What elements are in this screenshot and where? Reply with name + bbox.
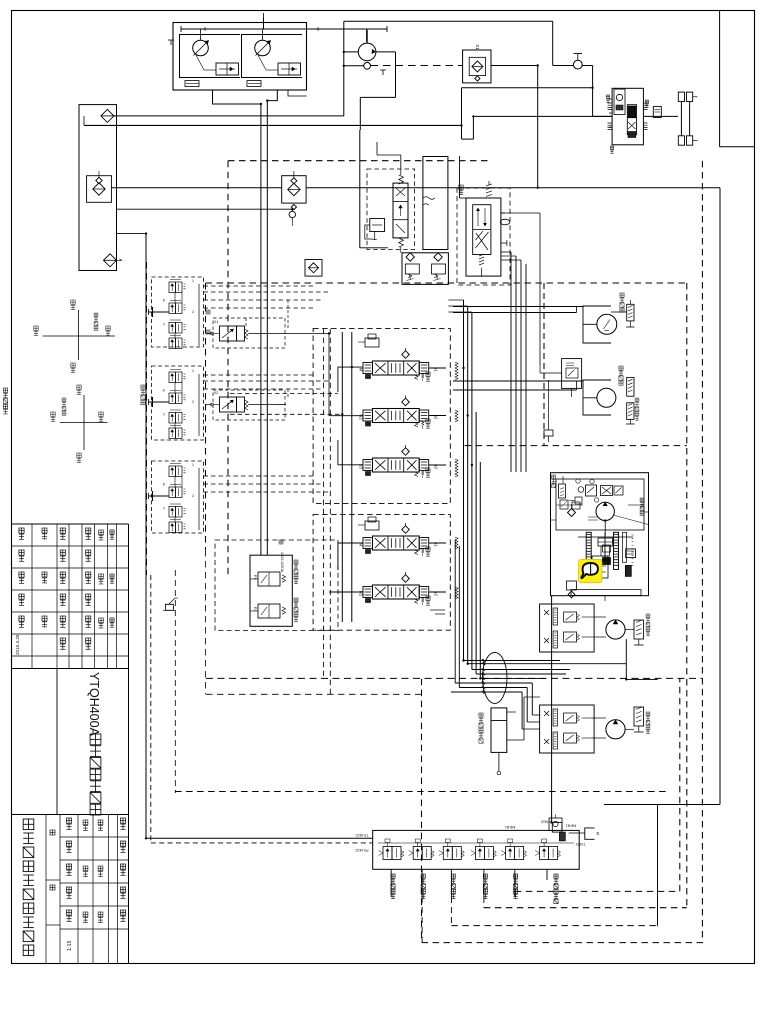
- section b1 label: [426, 547, 430, 556]
- solenoid X2 wires: [206, 391, 276, 405]
- svg-text:E: E: [596, 831, 599, 836]
- direction cross lower: [60, 395, 108, 450]
- svg-text:N2: N2: [359, 414, 364, 420]
- wire servo drop: [460, 156, 467, 198]
- company name column: [23, 819, 34, 956]
- wire aux pump dashed drain: [371, 65, 459, 67]
- winch bottom box: [571, 590, 641, 602]
- wire pump1 outlet drop: [213, 90, 261, 104]
- pilot web g3: [204, 476, 331, 492]
- highlight yellow box: [579, 559, 603, 583]
- valve section b3 a3: [359, 445, 439, 478]
- servo arrows top: [476, 208, 486, 226]
- svg-text:2: 2: [192, 310, 194, 314]
- pilot block dashed box: [215, 540, 338, 630]
- svg-text:4402-0291b: 4402-0291b: [280, 552, 284, 572]
- motor M1 frame: [583, 306, 611, 343]
- wire S1 drop x537: [537, 66, 539, 188]
- pump P1 swash link: [196, 55, 216, 70]
- brake valve side springs: [608, 103, 648, 130]
- wire top right notch: [720, 11, 755, 147]
- junction box small: [544, 430, 553, 436]
- wire manifold right riser: [551, 596, 553, 823]
- bank A dashed box: [313, 329, 450, 504]
- valve section N2b b2: [359, 572, 439, 605]
- winch right dark block: [625, 565, 631, 576]
- svg-text:T0.M22: T0.M22: [356, 833, 369, 837]
- motor M2 frame: [583, 380, 611, 415]
- wire S1 left: [458, 65, 463, 67]
- svg-text:2: 2: [192, 400, 194, 404]
- motor M1 label: [620, 293, 624, 312]
- pilot block box: [250, 555, 292, 626]
- central valve spring top: [399, 168, 404, 184]
- wire S1 right: [491, 65, 538, 67]
- dashed enclosure A: [175, 283, 687, 908]
- hand pump circle: [573, 54, 582, 70]
- highlight balloon glyph: [581, 563, 598, 578]
- wire right bus 4: [475, 412, 477, 674]
- filter S1 inner: [469, 57, 485, 81]
- filter F1 diamond: [101, 109, 114, 122]
- accumulator small box: [653, 107, 661, 118]
- svg-text:2010.3.25: 2010.3.25: [15, 634, 20, 655]
- check valve block: [305, 260, 322, 277]
- winch drum dark hubs: [603, 532, 611, 564]
- aux pump small circle: [364, 62, 371, 69]
- svg-text:P2: P2: [253, 607, 257, 611]
- wire return right drop: [719, 188, 721, 805]
- svg-text:M8-B1: M8-B1: [566, 824, 577, 828]
- pilot web g2: [204, 375, 331, 397]
- manifold dashed drops: [422, 891, 515, 942]
- dashed enclosure C: [146, 262, 148, 575]
- svg-text:1:15: 1:15: [67, 941, 73, 952]
- wire return y188 left: [111, 187, 281, 189]
- bundle lines through ellipse: [451, 659, 626, 694]
- manifold top fitting: [549, 815, 562, 831]
- wire T0 bottom: [146, 837, 373, 839]
- manifold valve 4: [471, 839, 497, 860]
- bank B pilot cap: [358, 517, 379, 530]
- winch labels: [552, 475, 644, 515]
- pilot joystick group 3: [149, 463, 200, 533]
- winch small circles: [578, 487, 599, 502]
- wire central top feed: [377, 142, 401, 168]
- wire bank to bundle diagonals: [430, 610, 445, 614]
- pilot web g1: [204, 286, 331, 328]
- wire T0 left rail: [145, 234, 147, 839]
- svg-text:P1: P1: [253, 575, 257, 579]
- brake cylinder rod L: [678, 92, 692, 145]
- pump case drain L: [168, 40, 386, 75]
- motor M1 circle: [597, 314, 617, 334]
- wire suction y125: [84, 124, 462, 126]
- winch valve b: [601, 486, 613, 496]
- pump P1 circle: [193, 40, 209, 56]
- pump P1 regulator valve: [216, 63, 239, 75]
- wire return main y116: [113, 115, 344, 117]
- wire bundle to motor1: [626, 639, 657, 679]
- solid L frame right: [590, 805, 658, 927]
- pilot group1 frame: [152, 277, 204, 347]
- servo label: [459, 185, 463, 195]
- title block lower labels: [50, 818, 126, 951]
- svg-text:1: 1: [192, 369, 194, 373]
- brake rod ticks: [693, 97, 698, 141]
- title block lower grid: [46, 815, 129, 964]
- cylinder label: [479, 713, 483, 743]
- svg-text:P.M22: P.M22: [541, 820, 551, 824]
- direction cross upper: [43, 310, 116, 360]
- wire valve feed: [582, 66, 612, 117]
- filter F2 box: [87, 171, 112, 202]
- motor M1 arrowmark: [604, 320, 611, 331]
- label S1: [475, 44, 480, 50]
- wire bundle from bank: [444, 622, 446, 660]
- bank B rails: [329, 543, 446, 592]
- svg-text:1: 1: [192, 279, 194, 283]
- wire aux outlet route: [360, 52, 395, 130]
- motor M2 brake lower: [626, 403, 635, 424]
- pilot block label: [279, 540, 284, 572]
- manifold valve 2: [409, 839, 435, 860]
- wire right bus 2: [448, 306, 467, 664]
- leveling motor 1 circle: [606, 620, 625, 639]
- pilot group labels: [141, 310, 210, 405]
- servo side marks: [501, 213, 507, 246]
- winch lower assembly: [592, 556, 608, 578]
- section a1 label: [426, 372, 430, 381]
- winch extra glyph row: [560, 476, 580, 509]
- dashed horiz y678: [206, 677, 702, 679]
- wire right bus 3: [448, 312, 472, 670]
- section a3 label: [426, 468, 430, 477]
- relief sub2: [432, 253, 446, 281]
- aux pump shaft: [366, 30, 368, 43]
- cross upper labels: [34, 300, 110, 373]
- servo spring bottom: [479, 254, 484, 276]
- manifold drop lines: [391, 869, 547, 897]
- pilot block side labels: [294, 560, 298, 622]
- title block header labels: [15, 528, 114, 655]
- motor M2 pilot box: [562, 359, 582, 389]
- svg-text:P0.M22: P0.M22: [355, 848, 368, 852]
- relief valve left: [365, 219, 385, 240]
- winch pipe runs: [511, 473, 649, 520]
- title cell divider: [56, 669, 58, 815]
- winch inner top box: [556, 479, 644, 530]
- hand lever unit: [163, 598, 178, 610]
- svg-text:1: 1: [192, 463, 194, 467]
- wire y209 branch: [117, 209, 293, 211]
- wire to E fitting: [569, 832, 585, 834]
- pump P1 servo piston: [185, 81, 199, 87]
- slip ring ellipse: [482, 652, 507, 703]
- main pump unit enclosure: [173, 23, 307, 91]
- bank A pilot cap: [358, 334, 379, 347]
- winch drum right bar: [614, 532, 619, 569]
- section b2 label: [426, 596, 430, 605]
- wire motor2 links: [593, 718, 634, 738]
- dashed vertical x680: [679, 283, 681, 893]
- winch right valve: [626, 549, 636, 558]
- servo spool: [473, 205, 491, 255]
- crossing marks right: [455, 362, 458, 599]
- telescopic cylinder: [491, 708, 507, 775]
- aux pump frame: [343, 21, 345, 116]
- wire pump2 outlet drop: [267, 90, 277, 101]
- winch right hatch bar: [623, 532, 634, 565]
- wire y116 main: [473, 115, 612, 117]
- leveling motor group 2: [540, 705, 595, 753]
- servo gauge: [500, 219, 510, 225]
- servo outer box: [466, 198, 501, 276]
- manifold valve 3: [439, 839, 465, 860]
- pilot block valve P1: [250, 572, 286, 586]
- wire central left rail: [360, 130, 388, 248]
- relief sub1: [405, 253, 419, 281]
- block break marks: [423, 197, 435, 205]
- valve section M2 b1: [359, 523, 439, 556]
- motor M1 brake: [626, 304, 635, 327]
- pilot block valve P2: [250, 604, 286, 618]
- winch relief glyph: [559, 484, 566, 498]
- dashed enclosure B: [228, 161, 702, 943]
- servo zigzag top: [486, 181, 492, 196]
- wire aux pump top: [344, 21, 574, 65]
- wire return y188 right: [306, 187, 720, 189]
- wire pump aux drop: [288, 90, 307, 96]
- bank A rails: [329, 332, 446, 622]
- rail end ticks: [181, 26, 387, 32]
- dashed enclosure G: [689, 283, 691, 792]
- pilot group2 frame: [152, 366, 204, 440]
- winch pump circle: [596, 502, 614, 520]
- winch leader line: [613, 515, 648, 525]
- solenoid valve X2: [211, 397, 248, 412]
- leveling motor 2 spring: [634, 707, 644, 732]
- margin label servo: [3, 388, 7, 414]
- manifold E fitting: [585, 828, 600, 839]
- wire motor M2: [453, 365, 583, 397]
- solenoid X1 wires: [206, 320, 276, 334]
- central valve arrows: [396, 188, 405, 233]
- pilot group3 frame: [152, 461, 204, 533]
- svg-text:2: 2: [192, 494, 194, 498]
- leveling motor group 1: [540, 604, 595, 652]
- dashed enclosure E: [484, 907, 687, 909]
- valve section N2 a2: [359, 396, 439, 429]
- motor M2 brake upper: [627, 377, 634, 396]
- winch top wires: [466, 472, 551, 474]
- wire banks feed horiz: [267, 366, 338, 368]
- svg-text:T.M22: T.M22: [576, 842, 586, 846]
- small vent circle: [289, 204, 296, 226]
- winch outer box: [551, 473, 649, 596]
- dashed lever frame: [174, 570, 176, 793]
- valve block tall rect: [423, 157, 448, 250]
- pump subunit 1 box: [180, 35, 241, 78]
- dashed vertical x323: [323, 329, 325, 679]
- cross lower labels: [51, 385, 103, 463]
- manifold internal rail: [378, 842, 574, 844]
- winch more glyphs: [569, 479, 623, 520]
- pump P2 servo piston: [247, 81, 261, 87]
- dashed vertical x206: [205, 550, 207, 694]
- valve section M a1: [359, 348, 439, 381]
- svg-text:M8-B1: M8-B1: [505, 825, 516, 829]
- manifold box: [373, 830, 580, 869]
- title block frame and grid: [12, 524, 129, 964]
- wire right bus 1: [448, 300, 463, 661]
- charge filter box: [282, 171, 306, 203]
- brake valve side marks: [606, 95, 648, 153]
- manifold labels: [391, 874, 558, 904]
- wire P0 left dashed: [150, 575, 152, 843]
- hydraulic tank box: [79, 105, 117, 271]
- wire servo feeds: [466, 252, 526, 472]
- wire suction drop: [83, 116, 85, 126]
- winch valve a: [586, 485, 597, 496]
- wire pump outlet verticals: [261, 101, 267, 556]
- wire return bottom right: [604, 804, 720, 806]
- bundle feed verticals: [446, 540, 459, 688]
- pump P2 swash link: [258, 55, 278, 70]
- wire P0 bottom dashed: [151, 842, 373, 844]
- manifold valve 6: [535, 839, 561, 860]
- pilot joystick group 1: [149, 279, 200, 349]
- servo dashed frame: [457, 188, 510, 285]
- manifold stub box: [552, 822, 565, 840]
- pump P2 regulator valve: [278, 63, 301, 75]
- winch bottom left valve: [567, 581, 577, 598]
- winch check diamond: [568, 504, 576, 517]
- svg-text:YTQH400A: YTQH400A: [87, 672, 101, 737]
- motor M2 circle: [597, 388, 616, 407]
- svg-text:X2: X2: [214, 391, 219, 395]
- dashed motor section edge: [543, 283, 545, 446]
- aux pump circle: [358, 43, 376, 61]
- wire right bus 5: [479, 462, 481, 678]
- winch gear box: [598, 538, 613, 556]
- relief block below: [402, 253, 448, 285]
- svg-text:X1: X1: [214, 320, 219, 324]
- solenoid group box: [213, 318, 285, 420]
- brake valve spool: [614, 89, 637, 137]
- dashed enclosure F: [451, 925, 657, 927]
- wire motor1 links: [594, 617, 634, 637]
- brake valve assembly box: [612, 88, 643, 145]
- winch shaft: [604, 521, 606, 536]
- central valve spring bottom: [399, 238, 404, 253]
- wire cylinder feed: [507, 660, 540, 740]
- winch crossbar: [556, 504, 644, 506]
- pump subunit 2 box: [242, 35, 303, 78]
- manifold valve 1: [379, 839, 405, 860]
- motor M2 label: [619, 366, 639, 420]
- drawing title YTQH400A hydraulic schematic: [87, 672, 101, 815]
- dashed horiz y694: [206, 693, 422, 695]
- central valve body: [393, 183, 408, 238]
- filter S1 outer box: [463, 50, 491, 83]
- motor group labels: [646, 614, 650, 734]
- wire valve to rods: [643, 115, 678, 117]
- filter F3 diamond: [104, 254, 122, 267]
- dashed horiz y445: [465, 445, 687, 447]
- central dashed box: [367, 169, 415, 250]
- leveling motor 2 circle: [606, 720, 625, 739]
- svg-text:S1: S1: [475, 44, 480, 50]
- pump P2 circle: [255, 40, 271, 56]
- pilot joystick group 2: [149, 369, 200, 439]
- drive shaft rail: [181, 13, 387, 42]
- wire riser x461: [462, 88, 593, 139]
- wire servo to M2: [548, 380, 550, 442]
- section a2 label: [426, 419, 430, 428]
- wire y233 tank branch: [117, 233, 147, 235]
- dashed enclosure D: [515, 678, 680, 891]
- solenoid valve X1: [211, 326, 248, 341]
- manifold port labels: [355, 820, 585, 853]
- winch cross shaft: [578, 536, 633, 538]
- dashed vertical x330: [329, 329, 331, 695]
- servo spool hatch: [476, 231, 489, 248]
- wire bundle to motor2: [522, 683, 540, 729]
- wire servo charge line: [501, 213, 540, 365]
- wire motor M1: [453, 300, 630, 313]
- leveling motor 1 spring: [634, 620, 644, 645]
- manifold valve 5: [501, 839, 526, 860]
- winch drum left bar: [586, 532, 591, 569]
- pilot lines dashed to bank: [230, 334, 342, 416]
- bank B dashed box: [313, 515, 450, 631]
- wire aux pump inlets: [344, 52, 364, 66]
- svg-text:M: M: [359, 368, 364, 372]
